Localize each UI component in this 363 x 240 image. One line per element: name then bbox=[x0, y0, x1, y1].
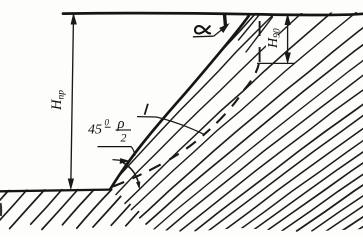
svg-text:2: 2 bbox=[121, 131, 127, 145]
vertical dashed tension-crack line bbox=[259, 15, 261, 63]
hatching: lower ground strip bbox=[0, 190, 159, 230]
dimension H_90 bbox=[266, 27, 278, 49]
crest tick bbox=[223, 16, 227, 26]
lower ground line bbox=[0, 190, 110, 192]
angle arc at toe bbox=[123, 163, 139, 188]
scan smudge at left edge bbox=[0, 203, 2, 216]
label H_90 (rotated) bbox=[266, 28, 283, 49]
extra hatch near crest wedge bbox=[234, 15, 273, 53]
slope face line bbox=[110, 16, 249, 190]
svg-text:0: 0 bbox=[105, 118, 110, 128]
label alpha with leader and arrow bbox=[195, 26, 210, 33]
label H_pr (rotated) bbox=[49, 90, 67, 111]
small arrow at toe angle bbox=[113, 159, 129, 163]
label 1 with leader bbox=[137, 104, 205, 135]
svg-text:Hпр: Hпр bbox=[49, 90, 67, 111]
dimension H_pr bbox=[68, 15, 76, 189]
ground surface line (top) bbox=[63, 13, 363, 15]
slip curve 1 (dashed) bbox=[113, 64, 259, 187]
svg-text:45: 45 bbox=[88, 123, 102, 138]
